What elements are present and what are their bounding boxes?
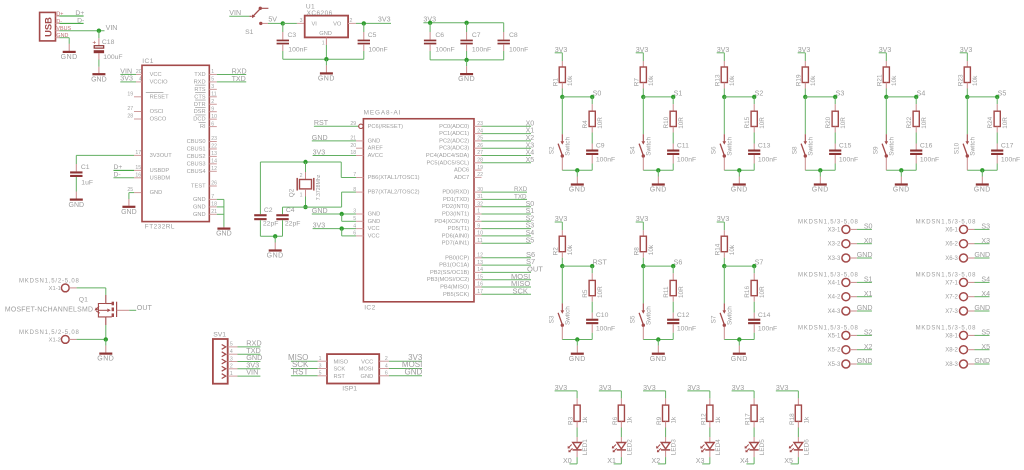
- svg-text:S5: S5: [630, 315, 637, 323]
- wire X3 to X6: [968, 243, 975, 245]
- svg-text:13: 13: [211, 151, 217, 157]
- svg-text:DCD: DCD: [193, 117, 205, 123]
- wire LED6 cathode to X5: [797, 451, 799, 458]
- svg-text:Switch: Switch: [564, 306, 571, 325]
- svg-text:TXD: TXD: [514, 194, 527, 201]
- svg-text:X5-3: X5-3: [828, 362, 841, 368]
- crystal Q2 7.3728Mhz: [305, 162, 307, 172]
- svg-text:100nF: 100nF: [839, 157, 858, 164]
- wire D- with net label: [59, 22, 83, 24]
- wire USB GND down: [59, 37, 69, 39]
- wire crystal ground rail: [260, 235, 282, 237]
- wire IC1 RXD pin 5 to TXD label: [209, 81, 217, 83]
- svg-text:C16: C16: [920, 143, 933, 150]
- svg-text:ADC6: ADC6: [454, 168, 469, 174]
- svg-text:1k: 1k: [626, 416, 633, 424]
- svg-text:PB4(MISO): PB4(MISO): [440, 285, 469, 291]
- junction node S3 right: [833, 95, 837, 99]
- resistor R24 10R: [996, 97, 998, 104]
- svg-text:S1: S1: [245, 29, 254, 36]
- svg-text:GND: GND: [812, 187, 829, 194]
- ground under IC1 right: [217, 228, 230, 230]
- pin stub IC1 23: [209, 141, 217, 143]
- resistor R23 10k: [966, 53, 968, 61]
- svg-text:GND: GND: [61, 54, 78, 61]
- svg-text:100nF: 100nF: [920, 157, 939, 164]
- svg-text:GND: GND: [361, 374, 374, 380]
- wire S1 from IC2 pin 1: [474, 213, 482, 215]
- svg-text:GND: GND: [569, 356, 586, 363]
- svg-text:AREF: AREF: [368, 146, 384, 152]
- wire X5 from IC2 pin 28: [474, 162, 482, 164]
- wire S4 from IC2 pin 10: [474, 235, 482, 237]
- svg-text:X7-2: X7-2: [945, 295, 958, 301]
- SV1 pin 1 to VIN: [222, 374, 226, 379]
- svg-text:Switch: Switch: [564, 137, 571, 156]
- svg-text:3V3: 3V3: [378, 15, 391, 23]
- junction ground S5 cell: [980, 168, 984, 172]
- svg-text:OSCI: OSCI: [150, 109, 164, 115]
- svg-text:USBDM: USBDM: [150, 175, 171, 181]
- SV1 pin 3 to GND: [222, 359, 226, 364]
- svg-text:S10: S10: [954, 142, 961, 154]
- svg-text:1k: 1k: [671, 416, 678, 424]
- svg-text:S2: S2: [864, 329, 873, 337]
- junction Q1 source ground: [104, 337, 108, 341]
- svg-text:100nF: 100nF: [472, 47, 491, 54]
- junction ground S4 cell: [899, 168, 903, 172]
- pin stub IC1 14: [209, 163, 217, 165]
- wire S2 from IC2 pin 2: [474, 220, 482, 222]
- svg-text:10k: 10k: [729, 244, 736, 255]
- svg-text:10R: 10R: [678, 117, 685, 129]
- svg-text:X4: X4: [740, 457, 749, 465]
- svg-text:X8-1: X8-1: [945, 333, 958, 339]
- svg-text:R8: R8: [634, 247, 641, 256]
- svg-text:20: 20: [136, 69, 142, 75]
- svg-text:S4: S4: [526, 230, 535, 237]
- svg-text:12: 12: [211, 166, 217, 172]
- svg-text:22: 22: [211, 144, 217, 150]
- svg-text:R2: R2: [553, 247, 560, 256]
- svg-text:X4: X4: [526, 150, 535, 157]
- svg-text:S2: S2: [549, 146, 556, 154]
- svg-text:C4: C4: [286, 207, 295, 214]
- svg-text:10k: 10k: [891, 75, 898, 86]
- switch S6: [723, 97, 725, 134]
- wire X2 to X5: [850, 349, 857, 351]
- svg-text:GND: GND: [193, 197, 206, 203]
- switch S8: [804, 97, 806, 134]
- junction U1 ground rail: [324, 57, 328, 61]
- switch S10: [966, 97, 968, 134]
- svg-text:GND: GND: [150, 190, 163, 196]
- junction cap bank ground: [464, 58, 468, 62]
- wire LED4 cathode to X3: [709, 451, 711, 458]
- wire ground rail S1 cell: [643, 169, 673, 171]
- svg-text:X1: X1: [864, 290, 873, 298]
- svg-text:14: 14: [211, 159, 217, 165]
- svg-text:Switch: Switch: [726, 306, 733, 325]
- junction node S1 right: [671, 95, 675, 99]
- svg-text:R11: R11: [663, 286, 670, 298]
- svg-text:PC2(ADC2): PC2(ADC2): [439, 138, 469, 144]
- switch S9: [885, 97, 887, 134]
- wire S6 from IC2 pin 12: [474, 257, 482, 259]
- ground S4 cell: [900, 170, 902, 176]
- wire MOSI from IC2 pin 15: [474, 279, 482, 281]
- ground under C7: [466, 60, 468, 66]
- svg-text:D+: D+: [75, 10, 84, 17]
- wire S2 to X5: [850, 334, 857, 336]
- svg-text:RTS: RTS: [194, 87, 205, 93]
- svg-text:LED6: LED6: [803, 439, 810, 455]
- wire LED5 cathode to X4: [753, 451, 755, 458]
- resistor R1 10k: [561, 53, 563, 61]
- svg-text:MEGA8-AI: MEGA8-AI: [364, 110, 402, 117]
- svg-text:+: +: [92, 40, 96, 47]
- SV1 pin 5 to RXD: [222, 345, 226, 350]
- svg-text:TXD: TXD: [194, 72, 205, 78]
- svg-text:PB2(SS/OC1B): PB2(SS/OC1B): [430, 270, 469, 276]
- capacitor C3 100nF: [282, 23, 284, 32]
- svg-text:S4: S4: [630, 146, 637, 154]
- svg-text:7.3728Mhz: 7.3728Mhz: [316, 174, 322, 200]
- LED LED2: [620, 437, 622, 443]
- wire ground rail S7 cell: [724, 339, 754, 341]
- junction over C6: [428, 21, 432, 25]
- svg-text:C14: C14: [758, 312, 771, 319]
- svg-text:Switch: Switch: [645, 137, 652, 156]
- ground S7 cell: [738, 340, 740, 346]
- wire X2 from IC2 pin 25: [474, 140, 482, 142]
- capacitor C7 100nF: [466, 23, 468, 32]
- svg-text:R22: R22: [906, 116, 913, 128]
- svg-text:MISO: MISO: [334, 359, 349, 365]
- svg-text:22pF: 22pF: [263, 221, 279, 228]
- svg-text:RST: RST: [292, 367, 308, 376]
- capacitor C6 100nF: [429, 23, 431, 32]
- wire D+ with net label: [59, 15, 83, 17]
- svg-text:6: 6: [211, 121, 214, 127]
- svg-text:PB0(ICP): PB0(ICP): [445, 255, 469, 261]
- wire X0 from IC2 pin 23: [474, 125, 482, 127]
- pin stub USB VBUS: [56, 30, 60, 32]
- wire RXD from IC2 pin 30: [474, 191, 482, 193]
- svg-text:VCCIO: VCCIO: [150, 79, 169, 85]
- svg-text:R16: R16: [744, 286, 751, 298]
- wire 3V3 rail over C6 C7 C8: [423, 22, 503, 24]
- svg-text:RST: RST: [334, 374, 346, 380]
- svg-text:PC3(ADC3): PC3(ADC3): [439, 146, 469, 152]
- svg-text:S1: S1: [864, 276, 873, 284]
- wire crystal top net: [260, 161, 341, 163]
- junction ground RST cell: [575, 337, 579, 341]
- svg-text:GND: GND: [569, 187, 586, 194]
- svg-text:R6: R6: [612, 416, 619, 425]
- svg-text:1: 1: [300, 193, 303, 199]
- svg-text:100nF: 100nF: [677, 326, 696, 333]
- svg-text:MKDSN1,5/2-5,08: MKDSN1,5/2-5,08: [19, 278, 80, 284]
- svg-text:C9: C9: [596, 143, 605, 150]
- svg-text:20: 20: [350, 143, 356, 149]
- svg-text:GND: GND: [97, 356, 114, 363]
- svg-text:10R: 10R: [840, 117, 847, 129]
- svg-text:X2: X2: [652, 457, 661, 465]
- svg-text:10k: 10k: [729, 75, 736, 86]
- ground S5 cell: [981, 170, 983, 176]
- svg-text:R9: R9: [656, 416, 663, 425]
- switch S7: [723, 266, 725, 303]
- svg-text:XC6206: XC6206: [307, 10, 333, 17]
- ground under U1: [325, 59, 327, 65]
- capacitor C1 1uF: [75, 164, 77, 171]
- svg-text:10k: 10k: [972, 75, 979, 86]
- wire S0 from IC2 pin 32: [474, 206, 482, 208]
- junction node RST right: [590, 264, 594, 268]
- wire ground rail S6 cell: [643, 339, 673, 341]
- junction node S4 right: [914, 95, 918, 99]
- wire ground rail under U1: [283, 58, 364, 60]
- svg-text:100nF: 100nF: [596, 326, 615, 333]
- resistor R6 1k: [620, 391, 622, 399]
- resistor R11 10R: [672, 266, 674, 273]
- svg-text:R15: R15: [744, 116, 751, 128]
- svg-text:OUT: OUT: [137, 304, 153, 312]
- svg-text:3: 3: [211, 84, 214, 90]
- wire X4 from IC2 pin 27: [474, 155, 482, 157]
- junction ground S0 cell: [575, 168, 579, 172]
- svg-text:GND: GND: [893, 187, 910, 194]
- svg-text:CBUS1: CBUS1: [187, 146, 206, 152]
- op-amp IC2 MEGA8-AI body: [363, 119, 474, 302]
- svg-text:GND: GND: [368, 212, 381, 218]
- svg-text:ADC7: ADC7: [454, 175, 469, 181]
- svg-text:PB1(OC1A): PB1(OC1A): [439, 263, 469, 269]
- pin stub USB D+: [56, 15, 60, 17]
- svg-text:RXD: RXD: [194, 79, 206, 85]
- svg-text:GND: GND: [267, 253, 284, 260]
- svg-text:C10: C10: [596, 312, 609, 319]
- capacitor C12 100nF: [672, 313, 674, 319]
- svg-text:1k: 1k: [803, 416, 810, 424]
- svg-text:X0: X0: [526, 120, 535, 127]
- wire crystal bottom net: [283, 206, 342, 208]
- wire ground rail under C6 C7 C8: [430, 59, 504, 61]
- svg-text:10R: 10R: [678, 286, 685, 298]
- svg-text:X5: X5: [981, 343, 990, 351]
- svg-text:X4-2: X4-2: [828, 295, 841, 301]
- svg-text:GND: GND: [857, 304, 873, 312]
- svg-text:1k: 1k: [759, 416, 766, 424]
- svg-text:GND: GND: [193, 204, 206, 210]
- pin stub IC1 RESET 19: [134, 96, 142, 98]
- wire IC1 TXD pin 1 to RXD label: [209, 73, 217, 75]
- wire S5 to X8: [968, 334, 975, 336]
- svg-text:VIN: VIN: [106, 24, 118, 32]
- svg-text:LED5: LED5: [759, 439, 766, 455]
- svg-text:R7: R7: [634, 78, 641, 87]
- svg-text:X1: X1: [607, 457, 616, 465]
- svg-text:MOSI: MOSI: [359, 367, 374, 373]
- svg-text:X2: X2: [864, 343, 873, 351]
- svg-text:FT232RL: FT232RL: [145, 224, 175, 231]
- wire ground rail S5 cell: [967, 169, 997, 171]
- svg-text:5: 5: [211, 77, 214, 83]
- svg-text:GND: GND: [121, 209, 137, 216]
- pin stub IC1 2: [209, 103, 217, 105]
- svg-text:R17: R17: [745, 413, 752, 425]
- wire IC1 3V3OUT pin 17 to C1: [76, 154, 134, 156]
- wire 5V to U1 VI pin 3: [283, 22, 297, 24]
- svg-text:RXD: RXD: [514, 186, 528, 193]
- svg-text:10R: 10R: [1002, 117, 1009, 129]
- pin stub IC1 22: [209, 148, 217, 150]
- svg-text:25: 25: [127, 187, 133, 193]
- svg-text:DTR: DTR: [194, 102, 206, 108]
- ground under IC1 pin 25: [122, 206, 135, 208]
- svg-text:R14: R14: [715, 243, 722, 255]
- svg-text:100nF: 100nF: [677, 157, 696, 164]
- svg-text:TEST: TEST: [191, 184, 206, 190]
- capacitor C15 100nF: [834, 144, 836, 150]
- svg-text:MOSFET-NCHANNELSMD: MOSFET-NCHANNELSMD: [5, 307, 93, 314]
- svg-text:GND: GND: [650, 187, 667, 194]
- svg-text:OSCO: OSCO: [150, 117, 167, 123]
- wire OUT from IC2 pin 14: [474, 271, 482, 273]
- ground S2 cell: [738, 170, 740, 176]
- svg-text:S1: S1: [526, 208, 535, 215]
- svg-text:MKDSN1,5/3-5,08: MKDSN1,5/3-5,08: [798, 220, 859, 226]
- svg-text:X7-1: X7-1: [945, 280, 958, 286]
- svg-text:9: 9: [211, 106, 214, 112]
- resistor R21 10k: [885, 53, 887, 61]
- capacitor C18 100uF polarized: [98, 31, 100, 39]
- svg-text:X3-1: X3-1: [828, 227, 841, 233]
- svg-text:S3: S3: [981, 223, 990, 231]
- LED LED1: [576, 437, 578, 443]
- svg-text:PC5(ADC5/SCL): PC5(ADC5/SCL): [427, 160, 470, 166]
- svg-text:GND: GND: [974, 251, 990, 259]
- svg-text:X3-2: X3-2: [828, 242, 841, 248]
- wire ground rail S0 cell: [562, 169, 592, 171]
- wire X5 to X8: [968, 349, 975, 351]
- wire S3 to X6: [968, 228, 975, 230]
- capacitor C9 100nF: [591, 144, 593, 150]
- resistor R4 10R: [591, 97, 593, 104]
- svg-text:100nF: 100nF: [758, 326, 777, 333]
- ground under C1: [70, 199, 83, 201]
- pin stub IC2 ADC7 22: [474, 176, 482, 178]
- ground S1 cell: [657, 170, 659, 176]
- wire TXD from IC2 pin 31: [474, 198, 482, 200]
- svg-text:S4: S4: [981, 276, 990, 284]
- svg-text:23: 23: [211, 136, 217, 142]
- junction node S3 left: [803, 95, 807, 99]
- svg-text:X2: X2: [526, 135, 535, 142]
- svg-text:C11: C11: [677, 143, 689, 150]
- wire node S1: [643, 96, 673, 98]
- svg-text:16: 16: [135, 172, 141, 178]
- svg-text:X3: X3: [981, 237, 990, 245]
- svg-text:R5: R5: [582, 289, 589, 298]
- pin stub IC1 12: [209, 170, 217, 172]
- resistor R19 10k: [804, 53, 806, 61]
- wire GND to X3: [850, 257, 857, 259]
- wire IC2 XTAL1 pin 7 to crystal: [340, 162, 342, 178]
- wire VBUS to VIN: [59, 30, 104, 32]
- svg-text:100nF: 100nF: [1001, 157, 1020, 164]
- resistor R16 10R: [753, 266, 755, 273]
- ground under C18: [92, 73, 105, 75]
- svg-text:X5: X5: [784, 457, 793, 465]
- svg-text:10: 10: [211, 114, 217, 120]
- LED LED3: [665, 437, 667, 443]
- svg-text:PC1(ADC1): PC1(ADC1): [439, 131, 469, 137]
- pin stub IC1 11: [209, 96, 217, 98]
- junction ground S1 cell: [656, 168, 660, 172]
- resistor R7 10k: [642, 53, 644, 61]
- svg-text:CBUS0: CBUS0: [187, 139, 206, 145]
- svg-text:Q2: Q2: [289, 188, 296, 197]
- svg-text:S3: S3: [526, 223, 535, 230]
- capacitor C16 100nF: [915, 144, 917, 150]
- capacitor C2 22pF: [259, 162, 261, 214]
- wire X1-1 to Q1 drain: [69, 287, 76, 289]
- ground under crystal caps: [274, 236, 276, 242]
- wire GND to X4: [850, 310, 857, 312]
- svg-text:VCC: VCC: [368, 233, 380, 239]
- svg-text:Switch: Switch: [726, 137, 733, 156]
- svg-text:VCC: VCC: [368, 226, 380, 232]
- op-amp IC1 FT232RL body: [142, 65, 209, 221]
- wire IC1 GND pin 25: [129, 192, 134, 194]
- wire node S7: [724, 265, 754, 267]
- svg-text:1: 1: [322, 40, 325, 46]
- resistor R8 10k: [642, 222, 644, 230]
- resistor R9 1k: [665, 391, 667, 399]
- pin stub IC1 9: [209, 111, 217, 113]
- junction node S7 right: [752, 264, 756, 268]
- pin stub IC1 13: [209, 155, 217, 157]
- svg-text:LED2: LED2: [626, 439, 633, 455]
- svg-text:10k: 10k: [648, 244, 655, 255]
- svg-text:S8: S8: [792, 146, 799, 154]
- svg-text:LED1: LED1: [582, 439, 589, 455]
- svg-text:CTS: CTS: [194, 94, 206, 100]
- wire Q1 gate to OUT: [117, 309, 130, 311]
- svg-text:C17: C17: [1001, 143, 1014, 150]
- svg-text:10R: 10R: [759, 286, 766, 298]
- junction node S1 left: [641, 95, 645, 99]
- svg-text:26: 26: [211, 181, 217, 187]
- junction node S4 left: [884, 95, 888, 99]
- junction crystal ground: [273, 234, 277, 238]
- wire node S3: [805, 96, 835, 98]
- svg-text:10k: 10k: [810, 75, 817, 86]
- svg-text:C7: C7: [472, 32, 481, 39]
- svg-text:100nF: 100nF: [288, 47, 307, 54]
- svg-text:X5: X5: [526, 157, 535, 164]
- svg-text:10k: 10k: [567, 244, 574, 255]
- svg-text:PD1(TXD): PD1(TXD): [443, 197, 469, 203]
- switch S5: [642, 266, 644, 303]
- junction U1 output: [362, 21, 366, 25]
- svg-text:S0: S0: [526, 201, 535, 208]
- svg-text:11: 11: [211, 92, 216, 98]
- svg-text:SV1: SV1: [213, 332, 226, 339]
- svg-text:18: 18: [211, 202, 217, 208]
